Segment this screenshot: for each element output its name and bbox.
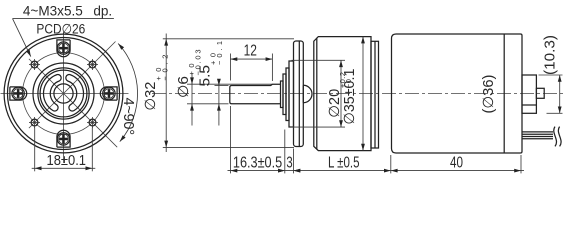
lead wires (523, 132, 554, 139)
front view vertical centerline (63, 32, 65, 163)
motor can d36 (392, 34, 523, 153)
dimension d32 +0/-0.2 (143, 34, 294, 153)
arrows 3 (278, 169, 285, 173)
svg-text:3: 3 (286, 154, 292, 171)
extension line motor rear (520, 155, 522, 173)
label 4~M3x5.5 dp. (13, 4, 114, 57)
gearbox outer circle (motor can) (4, 34, 123, 153)
flange second plate (298, 41, 300, 146)
output hub slot right segment (66, 75, 84, 112)
center hub half-circle (303, 85, 312, 102)
gearbox front face circle (8, 38, 120, 150)
extension line flange front (293, 149, 295, 174)
svg-text:12: 12 (244, 42, 257, 59)
gearbox rear ring inner line (374, 41, 376, 148)
output shaft d6 with flat (230, 84, 281, 104)
front flange d32 (294, 41, 304, 147)
front view horizontal centerline (1, 93, 129, 95)
rear boss tip (536, 88, 544, 98)
step ring 2 (283, 74, 286, 115)
dimension d20 +0.2/0 (292, 60, 354, 127)
svg-text:(∅36): (∅36) (481, 75, 497, 114)
M3 tapped hole lower-left (29, 117, 40, 128)
angular dimension 4~90 deg (118, 44, 137, 142)
label (d36) (481, 75, 497, 114)
phillips screw + crimp tab right (100, 87, 117, 100)
bearing ring outer circle (38, 68, 89, 119)
svg-text:(10.3): (10.3) (543, 35, 559, 75)
bottom dimension line (228, 170, 525, 172)
svg-text:4~M3x5.5 dp.: 4~M3x5.5 dp. (23, 4, 112, 19)
hole centerline diagonal lower-left to upper-right (29, 42, 116, 129)
gearbox rear ring (371, 41, 379, 148)
M3 tapped hole lower-right (87, 117, 98, 128)
bearing ring inner circle (40, 70, 87, 117)
PCD 26 bolt circle (23, 53, 105, 135)
output shaft circle d6 (54, 84, 73, 103)
arrows L (294, 169, 301, 173)
extension line boss front (284, 130, 286, 174)
gearbox case d35 (314, 37, 371, 151)
arrows 16.3 (231, 169, 238, 173)
front boss circle d20 (33, 63, 94, 124)
rear bearing boss (522, 75, 536, 113)
step ring 3 (286, 68, 289, 121)
arrows 40 (391, 169, 398, 173)
shaft collar ring (281, 81, 284, 108)
output hub slot left segment (43, 75, 61, 112)
svg-text:∅35±0.1: ∅35±0.1 (342, 69, 358, 125)
motor can rear crimp line (503, 34, 505, 153)
dimension d35 +-0.1 (342, 37, 365, 151)
side view centerline (152, 93, 564, 95)
dimension 12 (231, 42, 273, 81)
svg-text:L ±0.5: L ±0.5 (328, 154, 360, 171)
svg-text:∅32: ∅32 (143, 82, 159, 111)
svg-text:∅20: ∅20 (327, 89, 343, 118)
phillips screw + crimp tab top (57, 40, 70, 57)
svg-text:5.5: 5.5 (197, 65, 213, 87)
svg-text:4~90°: 4~90° (120, 98, 136, 136)
extension line shaft tip (230, 106, 232, 173)
M3 tapped hole upper-right (87, 59, 98, 70)
svg-text:18±0.1: 18±0.1 (47, 153, 87, 169)
svg-text:40: 40 (450, 154, 463, 171)
dimension 18 +-0.1 (32, 128, 96, 172)
hole centerline diagonal upper-left to lower-right (29, 59, 117, 147)
svg-text:16.3±0.5: 16.3±0.5 (233, 154, 282, 171)
M3 tapped hole upper-left (29, 59, 40, 70)
svg-text:∅6: ∅6 (176, 76, 192, 98)
dimension 5.5 +0/-0.1 (197, 41, 228, 126)
svg-text:PCD∅26: PCD∅26 (36, 21, 85, 36)
pilot boss d20 (289, 61, 294, 127)
phillips screw + crimp tab bottom (57, 130, 70, 147)
extension line motor front (390, 155, 392, 173)
dimension (10.3) (539, 35, 563, 113)
dimension d6 +0/-0.03 (176, 50, 272, 126)
wire break symbol (554, 127, 561, 147)
phillips screw + crimp tab left (10, 87, 27, 100)
